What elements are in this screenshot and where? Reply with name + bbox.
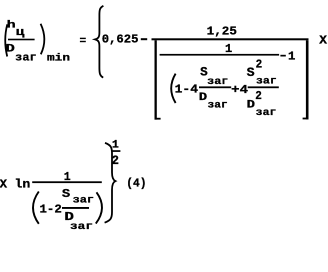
equation number (4) (126, 176, 146, 190)
svg-text:ц: ц (16, 27, 25, 39)
exponent fraction bar (112, 150, 120, 152)
exponent numerator 1 (112, 140, 119, 152)
closing curly brace (105, 143, 116, 223)
subscript заг of D second (256, 108, 277, 119)
minus of -1 term (280, 55, 285, 57)
numerator h (7, 19, 16, 31)
digit 1 of -1 term (288, 50, 295, 64)
svg-text:min: min (47, 52, 70, 64)
svg-text:1: 1 (112, 140, 119, 152)
subscript заг of S first (207, 77, 228, 88)
numerator 1 line 2 (64, 170, 71, 184)
inner opening parenthesis (171, 74, 175, 103)
fraction bar S/D first (199, 86, 231, 88)
svg-text:заг: заг (73, 195, 95, 206)
minus after 0,625 (141, 38, 147, 40)
fraction bar S/D second (248, 86, 279, 88)
inner fraction bar (160, 54, 280, 56)
svg-text:S: S (247, 66, 256, 80)
svg-text:h: h (7, 19, 16, 31)
subscript заг of S line 2 (73, 195, 95, 206)
subscript заг of S second (256, 76, 277, 87)
S numerator line 2 (62, 187, 70, 201)
fraction bar S/D line 2 (62, 207, 89, 209)
D denominator first (199, 92, 208, 104)
multiplication X line 2 (0, 178, 7, 191)
numerator 1,25 (207, 25, 237, 39)
subscript заг of D first (208, 100, 228, 111)
svg-text:(4): (4) (126, 176, 146, 190)
D denominator second (247, 100, 256, 112)
exponent 2 of S (256, 58, 263, 72)
closing parenthesis line 2 (96, 192, 102, 223)
svg-text:заг: заг (256, 76, 277, 87)
svg-text:2: 2 (256, 58, 263, 72)
svg-text:0,625: 0,625 (102, 33, 139, 47)
right parenthesis of (h/D)min (41, 24, 45, 55)
svg-text:D: D (5, 43, 15, 55)
ln operator (15, 178, 31, 191)
svg-text:заг: заг (70, 222, 93, 233)
term 1-4 (175, 83, 198, 97)
fraction bar h/D (8, 39, 35, 41)
svg-text:D: D (247, 100, 256, 112)
subscript заг of D line 2 (70, 222, 93, 233)
left square bracket (155, 40, 161, 119)
opening parenthesis line 2 (33, 192, 39, 224)
exponent denominator 2 (112, 154, 119, 168)
subscript min (47, 52, 70, 64)
svg-text:S: S (62, 187, 70, 201)
multiplication X line 1 (319, 35, 327, 48)
svg-text:заг: заг (256, 108, 277, 119)
fraction bar after ln (32, 181, 102, 183)
exponent 2 of D (255, 89, 262, 103)
right square bracket (303, 40, 309, 119)
D denominator line 2 (64, 210, 74, 224)
svg-text:1-4: 1-4 (175, 83, 198, 97)
subscript ц (16, 27, 25, 39)
svg-text:1,25: 1,25 (207, 25, 237, 39)
equals sign (80, 38, 86, 43)
plus 4 term (231, 83, 248, 97)
svg-text:2: 2 (255, 89, 262, 103)
svg-text:2: 2 (112, 154, 119, 168)
term 1-2 (40, 203, 62, 217)
S numerator second (247, 66, 256, 80)
S numerator first (200, 65, 208, 79)
subscript заг of D (15, 53, 37, 65)
inner numerator 1 (225, 42, 232, 56)
svg-text:1: 1 (288, 50, 295, 64)
left parenthesis of (h/D)min (5, 24, 7, 56)
svg-text:X: X (319, 35, 327, 48)
svg-text:заг: заг (15, 53, 37, 65)
svg-text:1-2: 1-2 (40, 203, 62, 217)
main fraction bar under 1,25 (152, 38, 309, 40)
svg-text:ln: ln (15, 178, 31, 191)
svg-text:заг: заг (208, 100, 228, 111)
denominator D (5, 43, 15, 55)
opening curly brace (95, 6, 103, 78)
svg-text:D: D (199, 92, 208, 104)
svg-text:1: 1 (64, 170, 71, 184)
svg-text:+4: +4 (231, 83, 248, 97)
svg-text:X: X (0, 178, 7, 191)
constant 0,625 (102, 33, 139, 47)
